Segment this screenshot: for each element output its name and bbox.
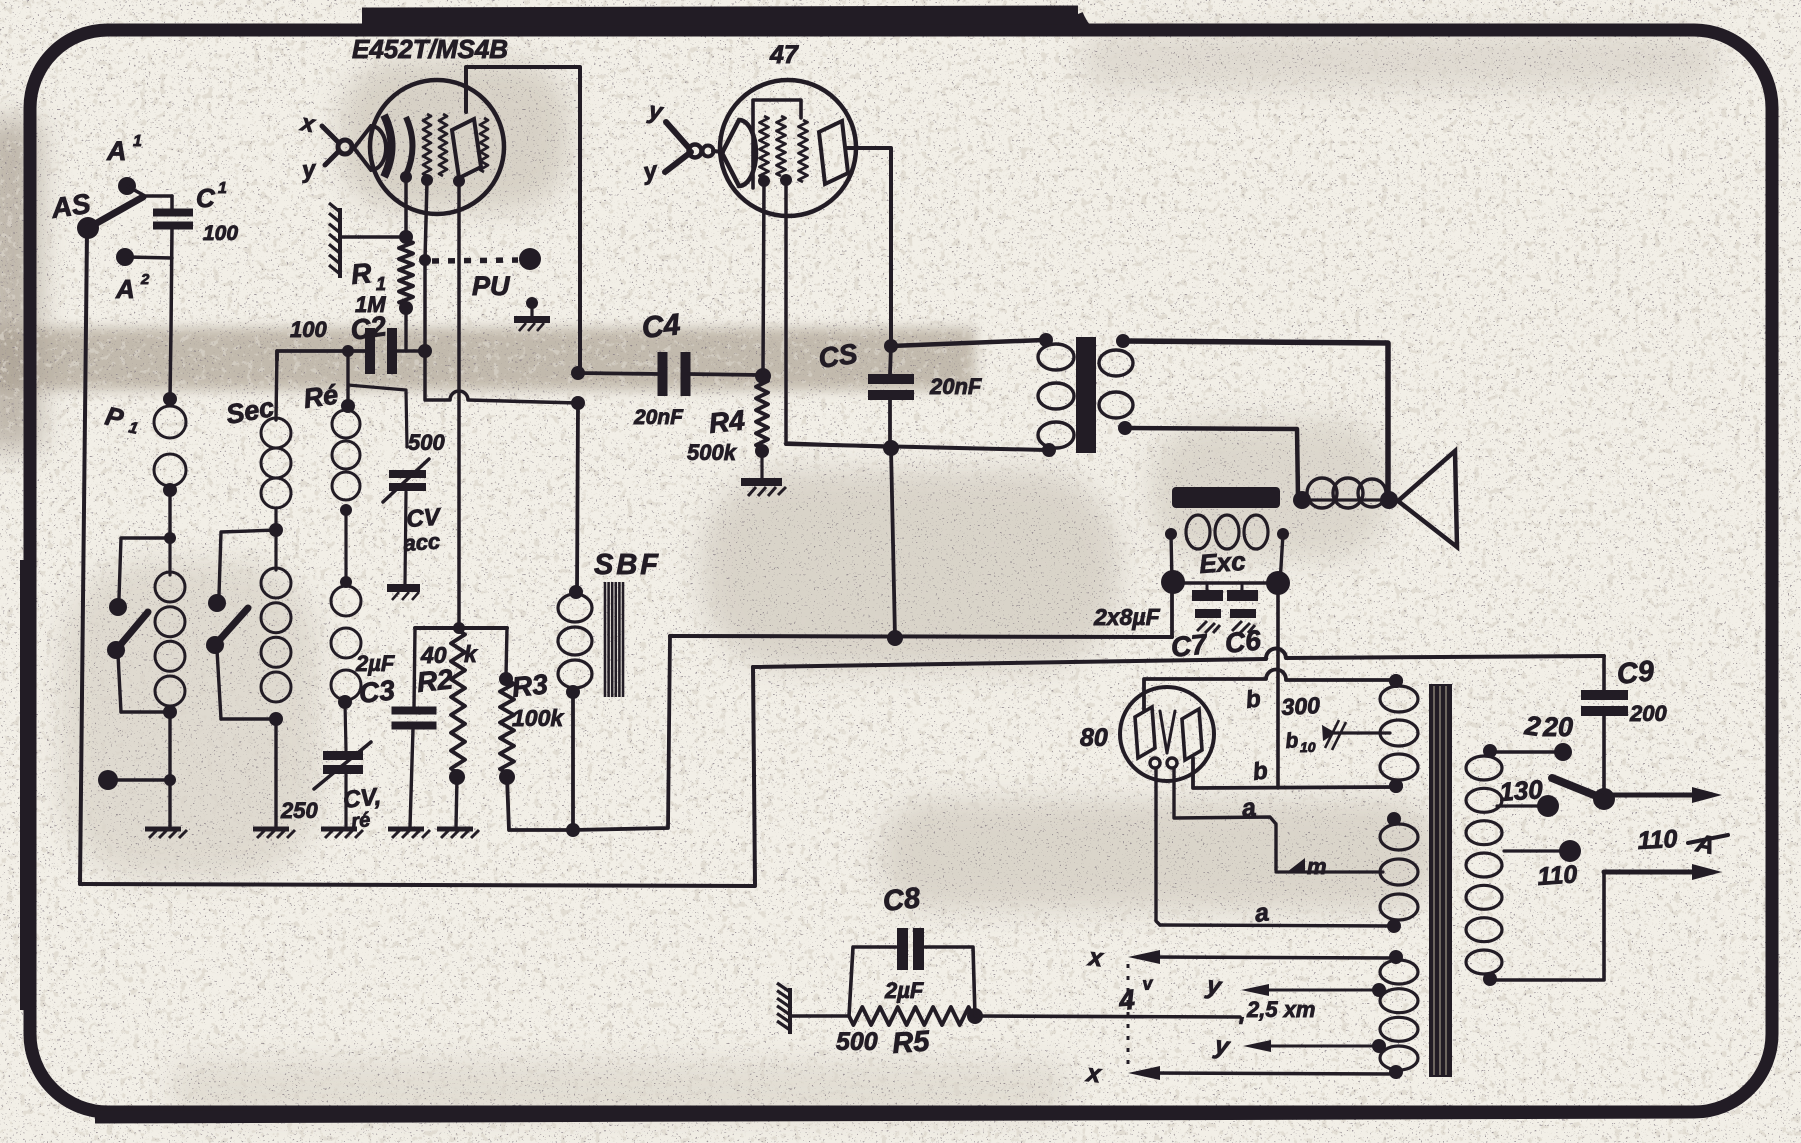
svg-text:4: 4	[1117, 984, 1137, 1016]
chassis bar at R5	[788, 988, 792, 1034]
V1 cathode pin wire to R1	[404, 177, 408, 234]
output transformer primary	[1038, 344, 1074, 370]
B+ bus	[670, 636, 1172, 637]
antenna coil P1 upper	[163, 392, 177, 406]
coil P1 lower	[168, 538, 171, 575]
output transformer core	[1076, 337, 1096, 453]
svg-text:130: 130	[1498, 774, 1544, 807]
svg-text:1: 1	[218, 180, 227, 197]
pickup PU dashed wire	[432, 260, 518, 261]
filter capacitor C7	[1185, 581, 1266, 584]
tube V2 47 envelope	[720, 80, 856, 216]
field coil EXC core	[1172, 487, 1280, 508]
ground under CV re	[344, 774, 347, 827]
V2 cathode horn	[722, 120, 756, 186]
tap 130 wire and terminal	[1497, 804, 1540, 807]
ground under R2	[456, 777, 457, 827]
svg-text:100: 100	[290, 317, 327, 342]
tap 110 wire and terminal	[1504, 849, 1562, 852]
screen supply wire	[786, 444, 1046, 450]
4V dashed marker	[1127, 964, 1130, 1068]
voice coil	[1293, 491, 1311, 509]
svg-text:C9: C9	[1615, 655, 1655, 691]
tube 80 right plate	[1182, 709, 1202, 760]
svg-text:500k: 500k	[687, 440, 738, 465]
svg-text:C8: C8	[881, 882, 922, 918]
mains output arrow 2	[1604, 870, 1695, 875]
terminal dot left	[168, 712, 171, 780]
svg-text:20nF: 20nF	[633, 406, 684, 429]
svg-text:R5: R5	[891, 1025, 931, 1060]
V1 grid zigzags	[423, 114, 431, 176]
wire C6 down to b line	[1276, 595, 1280, 788]
V2 anode wire	[846, 148, 891, 343]
svg-text:CS: CS	[817, 338, 860, 374]
return bus left drop	[753, 667, 755, 884]
V1 anode plate	[452, 119, 481, 178]
svg-text:2: 2	[140, 271, 150, 288]
filament winding xy	[1389, 950, 1403, 964]
svg-text:47: 47	[769, 41, 799, 69]
wire secondary bottom to voice coil	[1125, 428, 1298, 498]
svg-text:PU: PU	[472, 271, 511, 301]
svg-text:1: 1	[133, 133, 142, 150]
terminal A1	[118, 177, 136, 195]
tube V1 top box wire	[466, 67, 580, 373]
top rail of R2 R3	[415, 626, 507, 630]
ground bar under CV acc	[405, 492, 406, 584]
svg-text:20nF: 20nF	[929, 374, 982, 399]
wire secondary top to speaker	[1123, 341, 1388, 497]
svg-text:10: 10	[1300, 739, 1316, 755]
capacitor C3	[414, 628, 415, 708]
svg-text:20: 20	[1542, 712, 1573, 742]
V2 grid pin wire to R4	[763, 181, 764, 372]
svg-text:110: 110	[1536, 860, 1578, 891]
EXC left junction	[1171, 534, 1172, 582]
wire a lower	[1160, 925, 1394, 926]
svg-text:C7: C7	[1169, 628, 1209, 663]
wire C2 left plate to Sec coil node	[277, 351, 368, 360]
HT return bus	[753, 659, 1266, 667]
V1 anode pin wire down	[457, 181, 461, 628]
x tap line	[1128, 950, 1160, 964]
wire bus to Re	[342, 345, 354, 357]
wire C2 right to grid	[397, 349, 425, 353]
resistor R5	[849, 1007, 973, 1025]
switch in P1 column	[119, 538, 170, 598]
mains output arrow 1	[1613, 793, 1695, 798]
svg-text:Ré: Ré	[302, 379, 340, 414]
V2 screen box	[753, 100, 801, 188]
svg-text:80: 80	[1080, 724, 1108, 752]
capacitor C2	[365, 328, 375, 374]
rectifier tube 80 envelope	[1120, 687, 1214, 781]
speaker horn	[1398, 451, 1457, 547]
branch to CV acc	[348, 385, 407, 447]
svg-text:250: 250	[280, 798, 318, 823]
y prime tap line	[1243, 1040, 1271, 1052]
ground under P1	[168, 780, 171, 827]
coil Sec lower	[274, 530, 277, 570]
x prime tap line	[1128, 1066, 1160, 1080]
core of SBF	[604, 582, 607, 697]
variable capacitor CV re	[345, 702, 346, 750]
wire grid net to x578	[425, 351, 450, 400]
b10 tap	[1334, 731, 1390, 734]
selector lever	[1593, 788, 1615, 810]
svg-text:C3: C3	[357, 674, 396, 709]
V2 grid zigzags	[760, 116, 769, 178]
wire R3/SBF node riser to B+ bus	[573, 636, 670, 830]
filter capacitor C6	[1241, 583, 1244, 591]
V1 cathode horn	[354, 126, 386, 170]
resistor R1	[341, 235, 402, 239]
output transformer secondary	[1099, 350, 1133, 376]
resistor R3	[506, 628, 507, 676]
chassis hatch bar	[338, 208, 342, 278]
tube 80 left plate	[1135, 707, 1155, 758]
coil Re upper	[332, 410, 360, 438]
svg-text:C6: C6	[1223, 624, 1262, 659]
am tap	[1276, 870, 1383, 873]
resistor R4	[755, 368, 771, 384]
wire AS down left rail	[80, 232, 87, 884]
svg-text:E452T/MS4B: E452T/MS4B	[352, 34, 508, 64]
svg-text:2,5 xm: 2,5 xm	[1246, 997, 1316, 1022]
V1 right grid zigzag	[480, 118, 488, 172]
svg-text:100k: 100k	[512, 705, 564, 731]
wire x578 down to SBF	[577, 403, 578, 592]
svg-text:C2: C2	[349, 310, 389, 346]
svg-text:R3: R3	[510, 668, 549, 703]
svg-text:m: m	[1307, 854, 1327, 879]
svg-text:2x8µF: 2x8µF	[1093, 604, 1161, 630]
tube V1 E452T/MS4B envelope	[370, 80, 504, 214]
svg-text:500: 500	[836, 1028, 878, 1056]
switch in Sec column	[219, 530, 276, 595]
V2 cathode pin wire	[786, 180, 888, 447]
field coil EXC	[1165, 528, 1177, 540]
y tap line	[1241, 984, 1269, 996]
svg-text:SBF: SBF	[594, 549, 661, 581]
svg-text:1: 1	[376, 274, 386, 294]
svg-text:acc: acc	[403, 528, 441, 556]
svg-text:110: 110	[1637, 825, 1678, 855]
variable capacitor CV acc	[389, 470, 426, 478]
EXC right junction	[1280, 534, 1283, 583]
HT winding	[1389, 674, 1403, 688]
wire C5 down to B+ bus	[891, 448, 895, 637]
svg-text:300: 300	[1281, 692, 1321, 720]
svg-text:R4: R4	[707, 404, 746, 439]
mains winding	[1483, 744, 1497, 758]
svg-text:k: k	[464, 641, 478, 667]
capacitor C1	[170, 196, 174, 210]
svg-text:C4: C4	[640, 308, 682, 345]
svg-text:200: 200	[1629, 701, 1667, 726]
coil Re lower	[331, 586, 361, 616]
svg-text:b: b	[1284, 729, 1299, 753]
svg-text:2µF: 2µF	[355, 651, 395, 676]
fil-right wire to am	[1174, 768, 1276, 870]
tube 80 filament	[1160, 711, 1167, 753]
svg-text:A: A	[115, 274, 135, 304]
wire plate top to b	[1144, 679, 1266, 710]
ground under C3	[410, 729, 413, 827]
svg-text:A: A	[106, 136, 127, 166]
heater winding am	[1387, 812, 1401, 826]
svg-text:R: R	[350, 257, 374, 290]
terminal A2	[116, 248, 134, 266]
svg-text:R2: R2	[415, 663, 454, 698]
tap 220 wire and terminal	[1490, 751, 1556, 752]
power transformer core	[1429, 684, 1452, 1077]
V2 anode plate	[819, 121, 848, 184]
ground under R4	[741, 478, 782, 486]
svg-text:Exc: Exc	[1198, 546, 1247, 579]
svg-text:2µF: 2µF	[884, 978, 924, 1003]
grid pin wire of tube1	[425, 181, 427, 351]
wire right plate to b2	[1193, 758, 1396, 788]
wire R5 to transformer	[975, 1016, 1240, 1017]
wire anode bus to transformer	[891, 340, 1044, 346]
coil Sec upper	[276, 351, 277, 420]
bottom bus	[80, 884, 755, 886]
fil-left wire to a	[1156, 768, 1160, 925]
svg-text:500: 500	[408, 430, 445, 455]
svg-text:C: C	[196, 183, 216, 213]
wire C1 to P1 coil	[170, 227, 172, 399]
wire R3 bottom	[507, 777, 573, 830]
ground under Sec	[274, 719, 277, 827]
coil SBF	[558, 594, 592, 622]
svg-text:100: 100	[203, 222, 238, 245]
